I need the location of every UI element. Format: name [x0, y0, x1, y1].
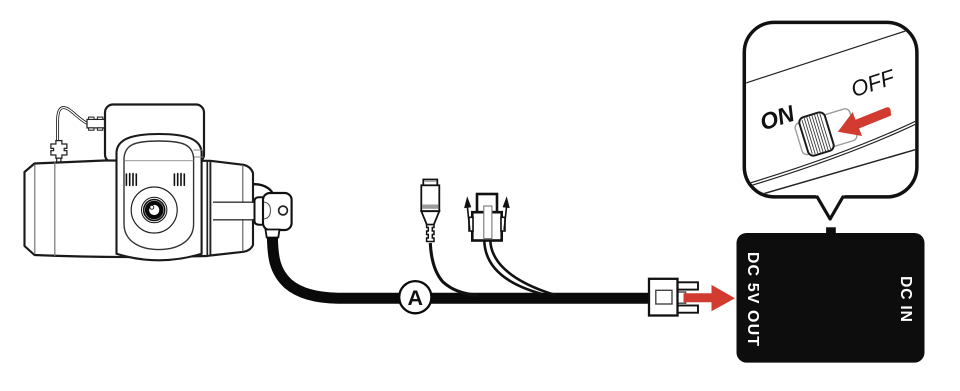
svg-text:DC 5V OUT: DC 5V OUT	[744, 252, 761, 347]
svg-text:DC IN: DC IN	[897, 276, 914, 322]
svg-text:A: A	[408, 286, 424, 310]
